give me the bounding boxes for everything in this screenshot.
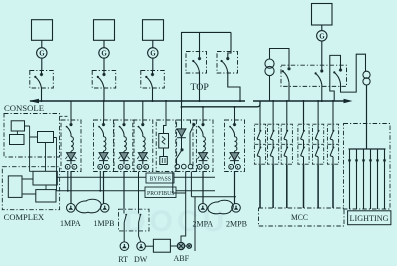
wire F4 drop xyxy=(142,101,144,120)
feeder cell F6 xyxy=(225,120,245,172)
svg-text:CONSOLE: CONSOLE xyxy=(4,104,44,113)
MCC cell 5 xyxy=(313,124,324,164)
svg-text:RT: RT xyxy=(118,255,128,264)
engine box E1 xyxy=(32,20,53,41)
complex unit R5 xyxy=(36,190,56,202)
bracket wire chain blade3 bottom to bracket2 xyxy=(341,54,366,92)
feeder cell F2 xyxy=(94,120,114,172)
wire DW to gearbox xyxy=(145,245,153,247)
generator G3 xyxy=(148,48,158,58)
breaker box TOP-1 xyxy=(186,52,207,74)
switch RT xyxy=(124,209,127,242)
motor 1MPA xyxy=(67,204,76,213)
junction dots bus1 xyxy=(41,100,43,102)
MCC drop wires to MCC box xyxy=(260,164,333,208)
wire to MCC cell 1 xyxy=(259,105,261,124)
wire F1 to 1MPA xyxy=(70,172,72,204)
wire bracket xyxy=(182,32,232,107)
svg-text:2MPB: 2MPB xyxy=(226,220,247,229)
breaker box Q2 xyxy=(92,71,116,89)
emergency board dashed box xyxy=(281,65,347,86)
wire xyxy=(152,58,154,70)
special dash-dot box xyxy=(156,120,176,172)
complex unit R6 xyxy=(8,176,22,198)
breaker TOP-1 blade xyxy=(192,57,201,72)
cloud coupling 2 xyxy=(208,200,233,214)
motor 2MPA xyxy=(199,204,208,213)
feeder cell F4 xyxy=(133,120,153,172)
bus arrow to console xyxy=(29,99,39,103)
wire xyxy=(152,40,154,47)
wire to ABF motor xyxy=(170,245,177,247)
wire xyxy=(41,40,43,47)
MCC cell 2 xyxy=(268,124,279,164)
svg-text:LIGHTING: LIGHTING xyxy=(350,214,389,223)
MCC cell 4 xyxy=(298,124,309,164)
rail PROFIBUS xyxy=(57,190,216,192)
cloud coupling 1 xyxy=(76,199,101,213)
dash link console to drives xyxy=(60,115,70,117)
wire F3 drop xyxy=(123,101,125,120)
breaker Q2 blade xyxy=(103,71,105,75)
wire elbow to bus xyxy=(228,72,240,101)
svg-text:BYPASS: BYPASS xyxy=(150,177,172,183)
wire xyxy=(321,25,323,31)
MCC cell 1 xyxy=(254,124,265,164)
engine box E3 xyxy=(143,20,164,41)
bypass diode column B (fed from TOP leg) xyxy=(175,107,186,169)
console wires xyxy=(17,126,56,191)
MCC cell 6 xyxy=(327,124,338,164)
blade column C xyxy=(188,120,193,169)
console unit R2 xyxy=(10,135,25,145)
svg-text:2MPA: 2MPA xyxy=(193,220,214,229)
MCC cell 3 xyxy=(281,124,292,164)
complex dash-dot box xyxy=(2,167,59,210)
svg-text:COMPLEX: COMPLEX xyxy=(4,213,45,222)
wire from T1 top over to breaker xyxy=(270,49,290,68)
svg-text:PROFIBUS: PROFIBUS xyxy=(147,191,175,197)
wire xyxy=(41,58,43,70)
feeder cell F3 xyxy=(114,120,134,172)
svg-text:DW: DW xyxy=(134,255,148,264)
svg-text:MCC: MCC xyxy=(291,213,308,222)
wire F3 down to box xyxy=(123,172,125,210)
wire F2 aux to profibus rail xyxy=(99,172,101,191)
wire F6 drop xyxy=(234,107,236,120)
junction dots bus3 xyxy=(272,100,274,102)
svg-text:1MPB: 1MPB xyxy=(94,219,115,228)
wire F5 drop xyxy=(202,107,204,120)
lighting label box xyxy=(348,211,391,225)
feeder cell F1 xyxy=(61,120,81,172)
switch DW xyxy=(139,209,142,242)
wire xyxy=(286,101,288,125)
console dash-dot box xyxy=(4,114,60,158)
svg-text:1MPA: 1MPA xyxy=(60,219,81,228)
wire T2 down to lighting bar xyxy=(366,85,368,149)
console unit R1 xyxy=(11,121,24,131)
motor 1MPB xyxy=(100,204,109,213)
wire xyxy=(103,58,105,70)
wire F4 output to RT/DW box xyxy=(138,172,140,210)
transformer T2 xyxy=(363,71,370,78)
wire xyxy=(317,101,319,125)
engine box E2 xyxy=(94,20,115,41)
wire xyxy=(41,88,43,101)
breaker box Q1 xyxy=(30,71,54,89)
svg-text:TOP: TOP xyxy=(190,83,209,93)
generator G2 xyxy=(99,48,109,58)
breaker box TOP-2 xyxy=(217,52,238,74)
transformer T1 xyxy=(265,59,274,68)
wire gen4 to bus xyxy=(321,85,323,102)
bracket wire over box (left) xyxy=(330,55,341,101)
breaker EB2 (gen4) blade xyxy=(315,69,324,84)
wire F1 aux to profibus rail xyxy=(67,172,69,191)
wire xyxy=(272,101,274,125)
wire xyxy=(199,72,201,101)
breaker Q3 blade xyxy=(152,71,154,75)
wire from T1 bottom to right bus xyxy=(269,76,271,101)
lighting distribution bar xyxy=(349,148,386,150)
motor DW xyxy=(137,242,146,251)
wire xyxy=(152,88,154,101)
wire xyxy=(332,101,334,125)
motor 2MPB xyxy=(232,204,241,213)
feeder cell F5 xyxy=(193,120,213,172)
motor ABF xyxy=(177,242,184,249)
wire F1 drop xyxy=(70,101,72,120)
wire F2 to 1MPB xyxy=(103,172,105,204)
wires special cell down to ABF xyxy=(173,172,186,243)
wire xyxy=(199,32,201,58)
rail BYPASS xyxy=(57,176,216,178)
complex unit R4 xyxy=(33,171,57,185)
RT/DW dash-dot box xyxy=(119,209,150,231)
small prop symbol xyxy=(187,244,192,249)
svg-text:ABF: ABF xyxy=(174,254,190,263)
gearbox rect xyxy=(153,239,170,252)
engine box E4 xyxy=(312,4,333,26)
PROFIBUS plate xyxy=(145,187,176,198)
wire F6 to 2MPB xyxy=(234,172,236,204)
wire F2 drop xyxy=(103,101,105,120)
motor RT xyxy=(120,242,129,251)
converter rect column A xyxy=(159,101,169,168)
console unit R3 xyxy=(38,132,54,143)
breaker EB1 blade xyxy=(282,67,291,82)
wire F5 to 2MPA xyxy=(202,172,204,204)
wire xyxy=(321,41,323,71)
wire down past ABF xyxy=(194,197,196,251)
wire manifold to 2MP motors xyxy=(191,196,236,198)
breaker TOP-2 blade xyxy=(228,32,231,58)
breaker Q1 blade xyxy=(41,71,43,75)
breaker EB3 blade xyxy=(333,68,342,83)
lighting drops with plugs xyxy=(350,149,385,209)
wire xyxy=(303,101,305,125)
breaker box Q3 xyxy=(141,71,165,89)
generator G1 xyxy=(37,48,47,58)
complex wires xyxy=(22,179,46,194)
BYPASS plate xyxy=(146,173,174,183)
MCC dash-dot box xyxy=(259,208,345,226)
lighting dash-dot box xyxy=(344,124,391,210)
bus arrow right xyxy=(344,99,353,103)
wire xyxy=(103,40,105,47)
generator G4 xyxy=(317,31,327,41)
wire xyxy=(103,88,105,101)
